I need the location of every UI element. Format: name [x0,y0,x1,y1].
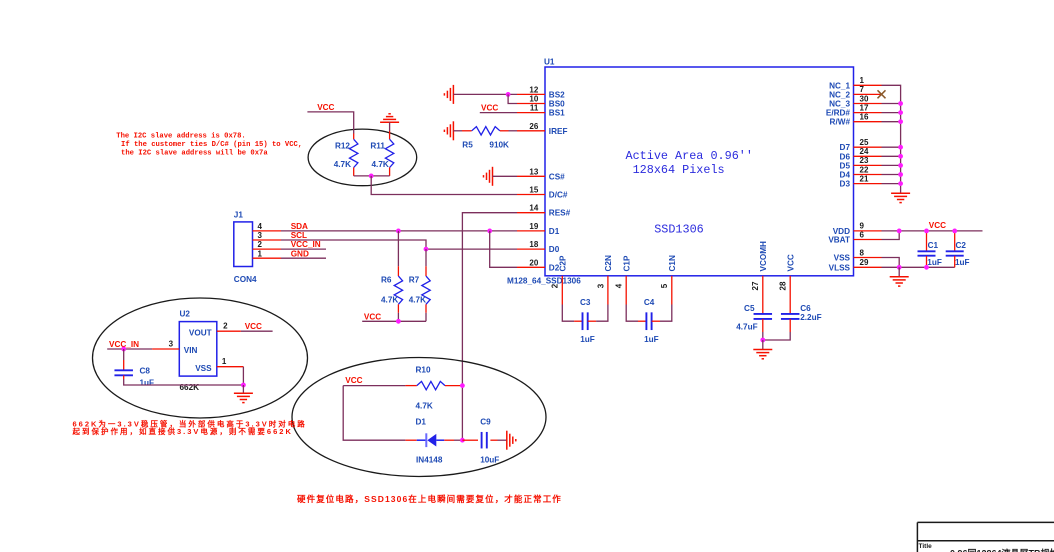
wire VCC down to D1 [343,386,405,441]
ground at CS# [484,167,518,186]
svg-text:1uF: 1uF [955,258,970,267]
svg-text:7: 7 [860,85,865,94]
wire SDA branch to U1 D2 [490,231,517,267]
net label VCC_IN at U2 [109,340,139,349]
capacitor C8 1uF [114,349,154,388]
svg-text:If the customer ties D/C# (pin: If the customer ties D/C# (pin 15) to VC… [121,141,302,149]
wire VCC to BS1 [480,112,517,114]
U1 pin 20 D2 [517,258,560,272]
svg-text:16: 16 [860,113,869,122]
net label VCC_IN [291,240,321,249]
U1 pin 14 RES# [517,204,571,218]
svg-text:10uF: 10uF [480,455,499,464]
svg-text:128x64 Pixels: 128x64 Pixels [633,163,725,177]
net label SCL [291,231,307,240]
wire VCC to R12 top [307,112,353,134]
U1 pin 23 D5 [840,156,882,170]
ground at BS2 BS0 [444,85,517,104]
svg-text:NC_2: NC_2 [829,90,850,99]
svg-text:CS#: CS# [549,172,565,181]
svg-text:VCC: VCC [364,313,381,322]
svg-text:C8: C8 [140,366,151,375]
U1 pin 15 D/C# [517,186,568,200]
wire VCC_IN to U2 VIN [107,348,152,350]
note I2C address line3 [121,149,268,157]
ellipse around reset circuit [292,358,546,477]
U2 pin name VIN [184,346,198,355]
svg-text:D1: D1 [416,418,427,427]
capacitor C5 4.7uF [736,304,772,340]
junction VSS/VLSS ground [897,265,902,270]
svg-text:24: 24 [860,147,869,156]
svg-text:2: 2 [551,283,560,288]
svg-text:NC_3: NC_3 [829,100,850,109]
junction VCC_IN / C8 [121,347,126,352]
wire VDD rail VCC [882,230,983,232]
chip U1 SSD1306 body [545,67,854,276]
resistor R12 4.7K [334,134,358,176]
svg-text:12: 12 [529,85,538,94]
wire SDA J1.4 to U1 D1 [281,230,517,232]
svg-text:VSS: VSS [195,364,212,373]
junction BS2 BS0 [506,92,511,97]
ground at VSS [890,267,909,286]
net label SDA [291,222,308,231]
title block document title [950,548,1054,552]
wire D7 to bus [882,145,903,150]
U2 pin 3 VIN [152,339,179,349]
svg-text:30: 30 [860,94,869,103]
connector J1 part CON4 [234,275,257,284]
resistor R11 4.7K [370,122,393,176]
U1 pin 9 VDD [833,222,882,236]
svg-text:C2P: C2P [559,255,568,271]
ground at R5 [444,121,453,140]
svg-text:NC_1: NC_1 [829,81,850,90]
svg-text:6: 6 [860,230,865,239]
svg-text:13: 13 [529,167,538,176]
capacitor C3 1uF [562,298,608,344]
svg-text:4: 4 [615,283,624,288]
connector J1 body [234,222,253,267]
U1 pin 16 R/W# [830,113,882,127]
svg-text:0.96同12864液晶屏TB规格书: 0.96同12864液晶屏TB规格书 [950,548,1054,552]
svg-text:4.7K: 4.7K [334,160,351,169]
svg-text:C3: C3 [580,298,591,307]
svg-text:RES#: RES# [549,209,571,218]
wire BS2 to BS0 [508,94,517,103]
capacitor C1 1uF [918,229,942,270]
svg-text:3: 3 [258,231,263,240]
U1 pin 28 VCC [779,254,796,304]
svg-text:D1: D1 [549,227,560,236]
svg-text:BS1: BS1 [549,109,565,118]
regulator U2 designator [180,310,191,319]
ground at C9 [507,431,516,450]
ground at R11 top [380,114,399,122]
svg-text:E/RD#: E/RD# [826,109,851,118]
U2 pin name VOUT [189,328,212,337]
svg-text:R10: R10 [416,366,431,375]
svg-text:the I2C slave address will be: the I2C slave address will be 0x7a [121,149,268,157]
svg-text:22: 22 [860,165,869,174]
U1 pin 2 C2P [551,255,568,304]
svg-text:23: 23 [860,156,869,165]
svg-text:2: 2 [223,321,228,330]
U1 pin 17 E/RD# [826,103,882,117]
svg-text:D3: D3 [840,180,851,189]
svg-text:1: 1 [860,76,865,85]
U1 pin 19 D1 [517,222,560,236]
svg-text:M128_64_SSD1306: M128_64_SSD1306 [507,277,581,286]
svg-text:C9: C9 [480,418,491,427]
wire D4 to bus [882,172,903,177]
wire D5 to bus [882,163,903,168]
svg-text:26: 26 [529,122,538,131]
U1 pin 26 IREF [517,122,567,136]
svg-text:910K: 910K [489,140,509,149]
wire SCL J1.3 to U1 D0 [281,240,517,249]
svg-text:BS0: BS0 [549,100,565,109]
wire C8 bottom to U2 VSS ground [124,379,244,385]
svg-text:R/W#: R/W# [830,118,851,127]
capacitor C6 2.2uF [781,304,822,332]
wire VBAT to VDD [882,231,900,240]
svg-text:1uF: 1uF [580,335,595,344]
svg-text:BS2: BS2 [549,90,565,99]
svg-text:J1: J1 [234,211,244,220]
U2 part 662K [180,383,200,392]
svg-text:D0: D0 [549,245,560,254]
regulator U2 body [179,322,217,377]
ellipse around R12 R11 [308,129,417,186]
wire divider to U1 D/C# [371,176,517,195]
U1 pin 25 D7 [840,138,882,152]
svg-text:VCC: VCC [345,376,362,385]
svg-text:C4: C4 [644,298,655,307]
net label GND [291,249,309,258]
resistor R10 4.7K [405,366,462,411]
svg-text:VCOMH: VCOMH [759,241,768,272]
wire C6 to C5 ground [763,332,790,340]
U1 pin 7 NC_2 [829,85,881,99]
junction SDA / R6 [396,229,401,234]
wire U2 VSS down [242,367,244,385]
wire R/W# to bus [882,119,903,124]
svg-text:SCL: SCL [291,231,307,240]
U1 pin 21 D3 [840,174,882,188]
U1 pin 1 NC_1 [829,76,881,90]
svg-text:27: 27 [751,281,760,290]
svg-text:C1P: C1P [622,255,631,271]
svg-text:18: 18 [529,240,538,249]
note hardware reset [297,494,562,504]
svg-text:4.7K: 4.7K [381,295,398,304]
chip U1 reference designator [544,58,555,67]
wire GND stub at J1.1 [281,257,326,259]
U1 pin 8 VSS [834,248,882,262]
svg-text:C2: C2 [956,241,967,250]
junction SCL / R7 [424,247,429,252]
svg-text:2: 2 [258,240,263,249]
U1 pin 6 VBAT [828,230,881,244]
net label VCC at reset [345,376,362,385]
svg-text:R7: R7 [409,275,420,284]
svg-text:VIN: VIN [184,346,198,355]
svg-text:14: 14 [529,204,538,213]
net label VCC at U2 VOUT [241,322,273,331]
wire NC_3 to bus [882,101,903,106]
svg-text:4.7K: 4.7K [409,295,426,304]
svg-text:17: 17 [860,103,869,112]
U1 pin 5 C1N [660,255,677,304]
svg-text:VCC: VCC [786,254,795,271]
svg-text:1uF: 1uF [927,258,942,267]
svg-text:D4: D4 [840,171,851,180]
resistor R6 4.7K [381,231,403,321]
svg-text:IREF: IREF [549,127,568,136]
resistor R7 4.7K [409,249,431,321]
svg-text:5: 5 [660,283,669,288]
svg-text:28: 28 [779,281,788,290]
svg-text:U2: U2 [180,310,191,319]
svg-text:R12: R12 [335,142,350,151]
svg-text:C1N: C1N [668,255,677,271]
wire U1 RES# down to reset circuit [462,213,517,441]
net label VCC at R12 [317,103,334,112]
wire D3 to bus [882,181,903,186]
svg-text:19: 19 [529,222,538,231]
svg-text:VCC_IN: VCC_IN [291,240,321,249]
U1 pin 24 D6 [840,147,882,161]
svg-text:VSS: VSS [834,254,851,263]
U1 pin 3 C2N [596,255,613,304]
svg-text:GND: GND [291,249,309,258]
wire E/RD# to bus [882,110,903,115]
svg-text:29: 29 [860,258,869,267]
J1 pin 3 [253,231,282,240]
wire VLSS rail [882,266,955,268]
svg-text:R5: R5 [462,140,473,149]
svg-text:R6: R6 [381,275,392,284]
U1 pin 10 BS0 [517,95,565,109]
svg-text:CON4: CON4 [234,275,257,284]
svg-text:10: 10 [529,95,538,104]
ellipse around U2 [93,298,308,418]
junction D1 / RES# line [460,438,465,443]
title block frame [917,522,1054,552]
U1 pin 30 NC_3 [829,94,881,108]
U1 pin 22 D4 [840,165,882,179]
wire VCC to R6 R7 bottoms [362,320,426,322]
connector J1 designator [234,211,244,220]
svg-text:VCC: VCC [929,221,946,230]
capacitor C4 1uF [626,298,672,344]
net label VCC at R6 R7 [364,313,381,322]
svg-text:2.2uF: 2.2uF [800,313,821,322]
svg-text:D7: D7 [840,143,851,152]
svg-text:8: 8 [860,248,865,257]
svg-text:SDA: SDA [291,222,308,231]
svg-text:1uF: 1uF [644,335,659,344]
junction VDD/VBAT [897,229,902,234]
svg-text:U1: U1 [544,58,555,67]
chip U1 text 128x64 Pixels [633,163,725,177]
svg-text:25: 25 [860,138,869,147]
svg-text:3: 3 [596,283,605,288]
chip U1 part name M128_64_SSD1306 [507,277,581,286]
svg-text:D/C#: D/C# [549,191,568,200]
net label VCC at BS1 [481,104,498,113]
capacitor C2 1uF [946,229,970,268]
J1 pin 1 [253,249,282,258]
U1 pin 4 C1P [615,255,632,304]
svg-text:The I2C slave address is 0x78.: The I2C slave address is 0x78. [116,132,245,140]
wire VCC_IN stub at J1.2 [281,248,326,250]
title block label Title [919,543,933,550]
svg-text:21: 21 [860,174,869,183]
ground at U2 VSS [234,385,253,403]
svg-text:1uF: 1uF [140,379,155,388]
chip U1 text SSD1306 [654,223,704,237]
chip U1 text Active Area [626,149,753,163]
junction R10 / RES# line [460,383,465,388]
U1 pin 13 CS# [517,167,565,181]
diode D1 IN4148 [405,418,462,465]
note 662K regulator line1 [73,418,307,428]
junction SDA / D2 branch [487,229,492,234]
wire R12 bottom to R11 bottom [354,175,390,177]
note 662K regulator line2 [72,426,293,436]
J1 pin 4 [253,222,282,231]
note I2C address line1 [116,132,245,140]
svg-text:IN4148: IN4148 [416,455,443,464]
svg-text:Active Area 0.96'': Active Area 0.96'' [626,149,753,163]
svg-text:Title: Title [919,543,933,550]
U1 pin 12 BS2 [517,85,565,99]
svg-text:1: 1 [258,249,263,258]
svg-text:3: 3 [169,339,174,348]
junction R6 bottom [396,319,401,324]
note I2C address line2 [121,141,302,149]
J1 pin 2 [253,240,282,249]
junction U2 VSS ground [241,383,246,388]
svg-text:VCC: VCC [317,103,334,112]
wire VSS to VLSS [882,258,900,268]
svg-text:1: 1 [222,357,227,366]
svg-text:VBAT: VBAT [828,236,850,245]
svg-text:15: 15 [529,186,538,195]
no-connect X at NC_2 [878,90,886,98]
svg-text:C2N: C2N [604,255,613,271]
svg-text:VLSS: VLSS [829,263,851,272]
svg-text:D5: D5 [840,161,851,170]
junction divider midpoint [369,174,374,179]
U1 pin 11 BS1 [517,104,565,118]
wire NC_1 to bus [882,85,901,193]
svg-text:SSD1306: SSD1306 [654,223,704,237]
resistor R5 910K [453,127,517,150]
svg-text:VOUT: VOUT [189,328,212,337]
svg-text:4.7K: 4.7K [372,160,389,169]
svg-text:C1: C1 [928,241,939,250]
ground at NC bus [891,193,910,202]
svg-text:起到保护作用，如直接供3.3V电源，则不需要662K: 起到保护作用，如直接供3.3V电源，则不需要662K [72,426,293,436]
capacitor C9 10uF [462,418,506,465]
U2 pin name VSS [195,364,212,373]
svg-text:4: 4 [258,222,263,231]
wire D6 to bus [882,154,903,159]
U2 pin 2 VOUT [217,321,241,331]
svg-text:4.7uF: 4.7uF [736,322,757,331]
svg-text:C5: C5 [744,304,755,313]
svg-text:11: 11 [530,104,539,113]
svg-text:VCC: VCC [245,322,262,331]
U1 pin 29 VLSS [829,258,882,272]
net label VCC at VDD [929,221,946,230]
svg-text:4.7K: 4.7K [416,401,433,410]
svg-text:20: 20 [529,258,538,267]
svg-text:VCC: VCC [481,104,498,113]
svg-text:R11: R11 [370,142,385,151]
wire VCC to R10 [343,385,405,387]
svg-text:D6: D6 [840,152,851,161]
U2 pin 1 VSS [217,357,244,367]
junction C5 ground [760,338,765,343]
svg-text:硬件复位电路，SSD1306在上电瞬间需要复位，才能正常工作: 硬件复位电路，SSD1306在上电瞬间需要复位，才能正常工作 [297,494,562,504]
U1 pin 18 D0 [517,240,560,254]
ground at C5 C6 [753,340,772,359]
U1 pin 27 VCOMH [751,241,768,305]
